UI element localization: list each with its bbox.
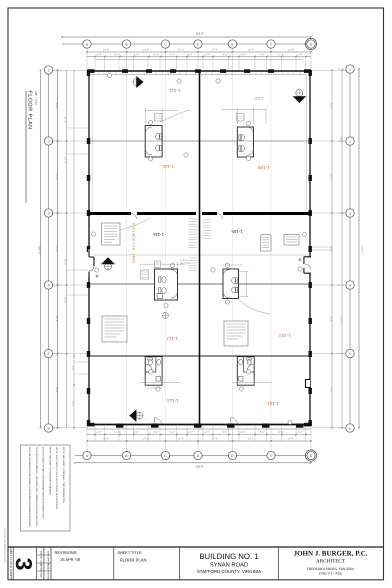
svg-text:NOTE: DENOTES STOREFRONT - SE: NOTE: DENOTES STOREFRONT - SEE SHEET 8 F… <box>35 447 38 526</box>
bottom dim line 3 <box>87 440 311 442</box>
left wall inner line <box>91 76 93 210</box>
svg-text:1: 1 <box>349 67 351 71</box>
svg-text:BUILDING NO. 1: BUILDING NO. 1 <box>199 552 258 561</box>
svg-text:REVISIONS:: REVISIONS: <box>55 550 78 555</box>
right dim texts <box>330 103 364 393</box>
cluster D fixtures <box>223 270 238 299</box>
svg-text:19'-8": 19'-8" <box>143 49 149 52</box>
left dim line 3 <box>66 70 68 428</box>
svg-text:4'-0": 4'-0" <box>298 431 303 434</box>
note box mid-left <box>102 223 121 245</box>
right wall vestibule <box>298 257 312 273</box>
top dim line 4 <box>95 59 303 61</box>
left dim texts <box>55 103 74 407</box>
small label box above cluster C <box>155 261 161 268</box>
svg-text:STAFFORD COUNTY, VIRGINIA: STAFFORD COUNTY, VIRGINIA <box>197 569 261 574</box>
svg-text:JOHN J. BURGER, P.C.: JOHN J. BURGER, P.C. <box>294 550 368 558</box>
cluster A label boxes <box>155 114 163 122</box>
note box lower-center <box>224 321 248 346</box>
svg-text:6: 6 <box>48 426 50 430</box>
svg-text:1-107: 1-107 <box>254 96 264 100</box>
toilet cluster E room <box>145 357 162 386</box>
svg-text:5: 5 <box>48 352 50 356</box>
cluster D dim ext <box>223 265 249 297</box>
svg-text:2: 2 <box>48 139 50 143</box>
SECTION: clusters <box>140 108 272 391</box>
party wall row 3 <box>88 212 311 215</box>
svg-text:F: F <box>270 454 272 458</box>
cluster C keynotes <box>170 263 174 267</box>
top storefront mullion ticks <box>98 72 300 75</box>
svg-text:2: 2 <box>349 139 351 143</box>
note box lower-left <box>102 316 127 342</box>
left bubble line <box>48 70 50 428</box>
svg-text:F: F <box>270 42 272 46</box>
svg-text:PLOT: 15 APR 08 BLDG 1.DWG: PLOT: 15 APR 08 BLDG 1.DWG <box>3 528 6 563</box>
left exterior wall <box>88 71 90 426</box>
cluster F partition <box>244 357 255 372</box>
svg-text:8'-8": 8'-8" <box>241 54 246 57</box>
section marker upper-left <box>133 76 144 88</box>
SECTION: grid <box>38 32 364 469</box>
section marker lower-left <box>129 409 143 422</box>
bottom bubble letters <box>86 454 313 458</box>
bottom grid bubbles <box>83 450 317 461</box>
svg-text:3'-4": 3'-4" <box>170 54 175 57</box>
keynote circles scattered <box>91 73 306 424</box>
right dim line 2 <box>341 70 343 428</box>
svg-text:NOTE: SEE SHEET 8 FOR DOOR SC: NOTE: SEE SHEET 8 FOR DOOR SCHEDULE <box>48 447 51 496</box>
top bubble letters <box>86 42 313 46</box>
right wall jog lower <box>305 380 311 388</box>
row 5 interior wall <box>89 355 310 357</box>
bottom dim line 1 <box>87 428 311 430</box>
center wall text block right upper <box>203 220 211 238</box>
svg-text:12'-8": 12'-8" <box>278 431 284 434</box>
right wall piers <box>309 70 312 426</box>
svg-text:4'-0": 4'-0" <box>97 54 102 57</box>
left overall dim line <box>40 70 42 428</box>
svg-text:4'-0": 4'-0" <box>97 431 102 434</box>
svg-text:4: 4 <box>48 283 50 287</box>
svg-text:FLEXIBLE CLG. AREA: FLEXIBLE CLG. AREA <box>132 223 136 264</box>
cluster E fixtures <box>145 358 161 381</box>
title block outline <box>8 546 384 548</box>
svg-text:SHEET 11 OF 11 SHEETS: SHEET 11 OF 11 SHEETS <box>9 547 13 580</box>
bottom dim line 2 <box>87 434 311 436</box>
svg-text:104'-0": 104'-0" <box>361 246 364 254</box>
svg-text:19'-8": 19'-8" <box>288 438 294 441</box>
left grid bubbles <box>44 66 52 432</box>
bottom wall piers <box>88 423 312 428</box>
party wall door arcs <box>131 214 223 220</box>
svg-text:12'-8": 12'-8" <box>114 54 120 57</box>
title underline <box>25 91 27 203</box>
left extension lines <box>52 71 88 428</box>
svg-text:16'-4": 16'-4" <box>178 438 184 441</box>
svg-text:116'-8": 116'-8" <box>196 32 204 36</box>
left wall piers <box>87 70 90 426</box>
top dim line 2 <box>87 51 311 53</box>
svg-text:12'-8": 12'-8" <box>278 54 284 57</box>
section marker upper-right <box>293 90 307 104</box>
bottom bubble line <box>75 455 311 457</box>
svg-text:ARCHITECT: ARCHITECT <box>316 559 346 565</box>
row2 line across cluster B <box>238 140 253 142</box>
svg-text:23'-4": 23'-4" <box>55 174 58 180</box>
right extension lines <box>310 71 346 428</box>
cluster A fixtures <box>145 127 161 155</box>
svg-text:6'-0": 6'-0" <box>205 431 210 434</box>
svg-text:1-111: 1-111 <box>169 88 181 93</box>
svg-text:TOILET: TOILET <box>180 259 188 262</box>
svg-text:SYNAN ROAD: SYNAN ROAD <box>210 562 248 569</box>
top dim texts row <box>97 49 303 57</box>
column grid lines through plan <box>127 71 272 427</box>
note box lower-center lines <box>227 324 246 339</box>
svg-text:FLOOR PLAN: FLOOR PLAN <box>27 90 33 129</box>
svg-text:NOTE: FILL CELLS OF CMU WITH: NOTE: FILL CELLS OF CMU WITH FOAM INSULA… <box>42 447 45 519</box>
left bubble numbers <box>48 68 50 430</box>
left dim ticks <box>40 69 76 429</box>
leader squiggle upper-left cluster <box>160 110 190 122</box>
right bubble line <box>349 69 351 428</box>
svg-text:46'-8": 46'-8" <box>340 137 343 143</box>
leader squiggle mid-right <box>238 298 270 314</box>
cluster B dim line <box>221 108 266 124</box>
SECTION: notesbox <box>21 445 71 531</box>
svg-text:6'-0": 6'-0" <box>205 54 210 57</box>
svg-text:1/8" = 1'-0": 1/8" = 1'-0" <box>34 91 38 105</box>
right wall inner line <box>306 76 308 210</box>
cluster B fixtures <box>239 127 254 156</box>
top exterior wall <box>88 70 311 72</box>
rear door swing right unit <box>231 418 238 425</box>
svg-text:4'-0": 4'-0" <box>260 431 265 434</box>
svg-text:8'-8": 8'-8" <box>241 431 246 434</box>
mid band partition <box>89 254 310 256</box>
SECTION: extras <box>88 73 312 424</box>
bottom extension lines <box>87 426 311 454</box>
svg-text:15 APR '08: 15 APR '08 <box>60 557 81 562</box>
svg-text:SHEET TITLE:: SHEET TITLE: <box>118 551 143 555</box>
area tab box right <box>284 235 299 246</box>
svg-text:1-101: 1-101 <box>267 401 279 406</box>
svg-text:G: G <box>310 454 313 458</box>
bottom overall line <box>75 462 311 464</box>
svg-text:4'-0": 4'-0" <box>260 54 265 57</box>
right overall line <box>358 69 360 428</box>
toilet cluster C room <box>155 269 178 300</box>
cluster E keynotes <box>149 370 153 374</box>
cluster A keynotes <box>148 120 152 124</box>
small label box left of cluster C <box>141 270 149 279</box>
svg-text:DRAWN MJM: DRAWN MJM <box>39 564 42 578</box>
svg-text:8'-0": 8'-0" <box>71 402 74 407</box>
svg-text:1-113: 1-113 <box>167 398 179 403</box>
left dim line 4 <box>73 70 75 428</box>
svg-text:19'-8": 19'-8" <box>288 49 294 52</box>
bottom dim ticks <box>74 434 312 464</box>
keynote schedule box right <box>261 235 271 251</box>
svg-text:23'-4": 23'-4" <box>330 246 333 252</box>
title block dividers <box>13 547 278 580</box>
svg-text:3'-4": 3'-4" <box>170 431 175 434</box>
right exterior wall <box>309 71 311 426</box>
svg-text:11'-4": 11'-4" <box>64 117 67 123</box>
toilet cluster B room <box>237 127 253 157</box>
row 2 interior wall <box>89 140 310 142</box>
svg-text:23'-4": 23'-4" <box>55 246 58 252</box>
cluster F keynotes <box>247 370 251 374</box>
top overall dimension line <box>62 36 311 38</box>
svg-text:46'-8": 46'-8" <box>340 317 343 323</box>
svg-text:4'-0": 4'-0" <box>134 431 139 434</box>
svg-text:24'-4": 24'-4" <box>55 387 58 393</box>
svg-text:SCALE NOTED: SCALE NOTED <box>46 564 49 580</box>
svg-text:23'-4": 23'-4" <box>330 103 333 109</box>
svg-text:16'-4": 16'-4" <box>178 49 184 52</box>
svg-text:22'-4": 22'-4" <box>55 316 58 322</box>
svg-text:1-115: 1-115 <box>162 164 174 169</box>
svg-text:4'-0": 4'-0" <box>298 54 303 57</box>
area tab lines <box>286 237 297 242</box>
top wall inner storefront line <box>92 74 307 76</box>
svg-text:1-105: 1-105 <box>231 229 243 234</box>
svg-text:23'-4": 23'-4" <box>330 174 333 180</box>
note box mid-left leader <box>120 219 149 231</box>
svg-text:12'-0": 12'-0" <box>64 157 67 163</box>
left wall vestibule <box>88 248 99 278</box>
svg-text:10'-0": 10'-0" <box>64 259 67 265</box>
svg-text:116'-8": 116'-8" <box>196 465 204 469</box>
cluster E dim <box>140 380 180 388</box>
svg-text:104'-0": 104'-0" <box>38 246 42 255</box>
svg-text:3: 3 <box>349 211 351 215</box>
svg-text:23'-4": 23'-4" <box>55 103 58 109</box>
toilet cluster A room <box>145 126 162 158</box>
svg-text:3: 3 <box>48 211 50 215</box>
svg-text:19'-8": 19'-8" <box>143 438 149 441</box>
narrow column splits <box>37 555 51 571</box>
svg-text:19'-8": 19'-8" <box>103 49 109 52</box>
svg-text:19'-4": 19'-4" <box>248 49 254 52</box>
svg-text:13'-4": 13'-4" <box>64 297 67 303</box>
top grid bubbles <box>83 38 317 49</box>
bottom exterior wall <box>88 424 311 426</box>
svg-text:17'-4": 17'-4" <box>212 49 218 52</box>
svg-text:6: 6 <box>349 426 351 430</box>
cluster B label boxes <box>237 114 245 122</box>
svg-text:6'-0": 6'-0" <box>188 431 193 434</box>
svg-text:1-117: 1-117 <box>166 336 178 341</box>
center wall text block left <box>189 258 197 271</box>
svg-text:17'-4": 17'-4" <box>212 438 218 441</box>
cluster E partition <box>145 357 156 372</box>
svg-text:3'-4": 3'-4" <box>223 54 228 57</box>
svg-text:NOTE: SEE CIVIL DRAWINGS FOR: NOTE: SEE CIVIL DRAWINGS FOR COMPLETE SI… <box>28 447 31 527</box>
svg-text:3: 3 <box>11 558 37 571</box>
cluster D keynotes <box>225 263 229 267</box>
rear door swing left unit <box>155 418 162 425</box>
svg-text:1-115: 1-115 <box>152 232 163 237</box>
right grid bubbles <box>346 65 354 432</box>
note box lower-left lines <box>105 319 125 337</box>
svg-text:3'-4": 3'-4" <box>71 366 74 371</box>
cluster C floor drain <box>162 313 168 319</box>
cluster C fixtures <box>157 270 178 299</box>
cluster F fixtures <box>239 358 255 381</box>
right dim line 1 <box>331 70 333 428</box>
toilet cluster F room <box>237 357 254 386</box>
svg-text:8'-8": 8'-8" <box>154 431 159 434</box>
svg-text:RM 1-116: RM 1-116 <box>180 262 190 265</box>
SECTION: labels <box>132 88 291 406</box>
svg-text:(540) 371 - 4356: (540) 371 - 4356 <box>319 571 342 575</box>
bottom dim texts <box>97 431 303 441</box>
SECTION: plantitle <box>26 90 38 203</box>
svg-text:G: G <box>310 42 313 46</box>
keynote schedule lines <box>262 237 269 247</box>
right bubble numbers <box>349 67 351 430</box>
center wall text block left upper <box>189 219 198 248</box>
top dim line 3 <box>87 56 311 58</box>
svg-text:19'-4": 19'-4" <box>248 438 254 441</box>
svg-text:24'-4": 24'-4" <box>330 387 333 393</box>
cluster F dim <box>232 380 272 385</box>
svg-text:FLOOR PLAN: FLOOR PLAN <box>120 558 147 563</box>
section marker mid-left <box>101 257 115 270</box>
svg-text:6'-0": 6'-0" <box>188 54 193 57</box>
svg-text:22'-4": 22'-4" <box>330 316 333 322</box>
SECTION: walls <box>87 69 312 427</box>
top wall piers <box>88 69 312 73</box>
cluster C side notes <box>180 259 190 265</box>
svg-text:12'-8": 12'-8" <box>114 431 120 434</box>
svg-text:1-103: 1-103 <box>279 333 291 338</box>
center demising wall <box>199 71 201 425</box>
left dim line 2 <box>57 70 59 428</box>
row2 line across cluster A <box>146 140 161 142</box>
svg-text:NOTE: SEE SHEET 8 FOR TOILET: NOTE: SEE SHEET 8 FOR TOILET ROOM INFORM… <box>55 447 58 509</box>
cluster B keynotes <box>246 121 250 125</box>
row 4 interior wall <box>89 283 310 285</box>
svg-text:1-109: 1-109 <box>258 165 270 170</box>
svg-text:5: 5 <box>349 352 351 356</box>
bubble leaders <box>53 69 347 428</box>
right dim ticks <box>331 68 360 429</box>
svg-text:3'-4": 3'-4" <box>223 431 228 434</box>
svg-text:1: 1 <box>48 68 50 72</box>
toilet cluster D room <box>223 269 239 299</box>
svg-text:19'-8": 19'-8" <box>103 438 109 441</box>
notes box frame <box>21 445 71 531</box>
top bubble line <box>62 43 311 45</box>
svg-text:8'-8": 8'-8" <box>154 54 159 57</box>
cluster A dim line <box>145 108 178 124</box>
note box mid-left text lines <box>104 226 117 242</box>
SECTION: titleblock <box>8 547 384 580</box>
svg-text:4: 4 <box>349 283 351 287</box>
top dim ticks <box>61 36 312 58</box>
svg-text:NOTE: SEE SHEET 2 FOR WALL TY: NOTE: SEE SHEET 2 FOR WALL TYPE INFORMAT… <box>62 447 65 503</box>
cluster C dim line <box>140 262 185 268</box>
top extension lines <box>87 46 311 71</box>
